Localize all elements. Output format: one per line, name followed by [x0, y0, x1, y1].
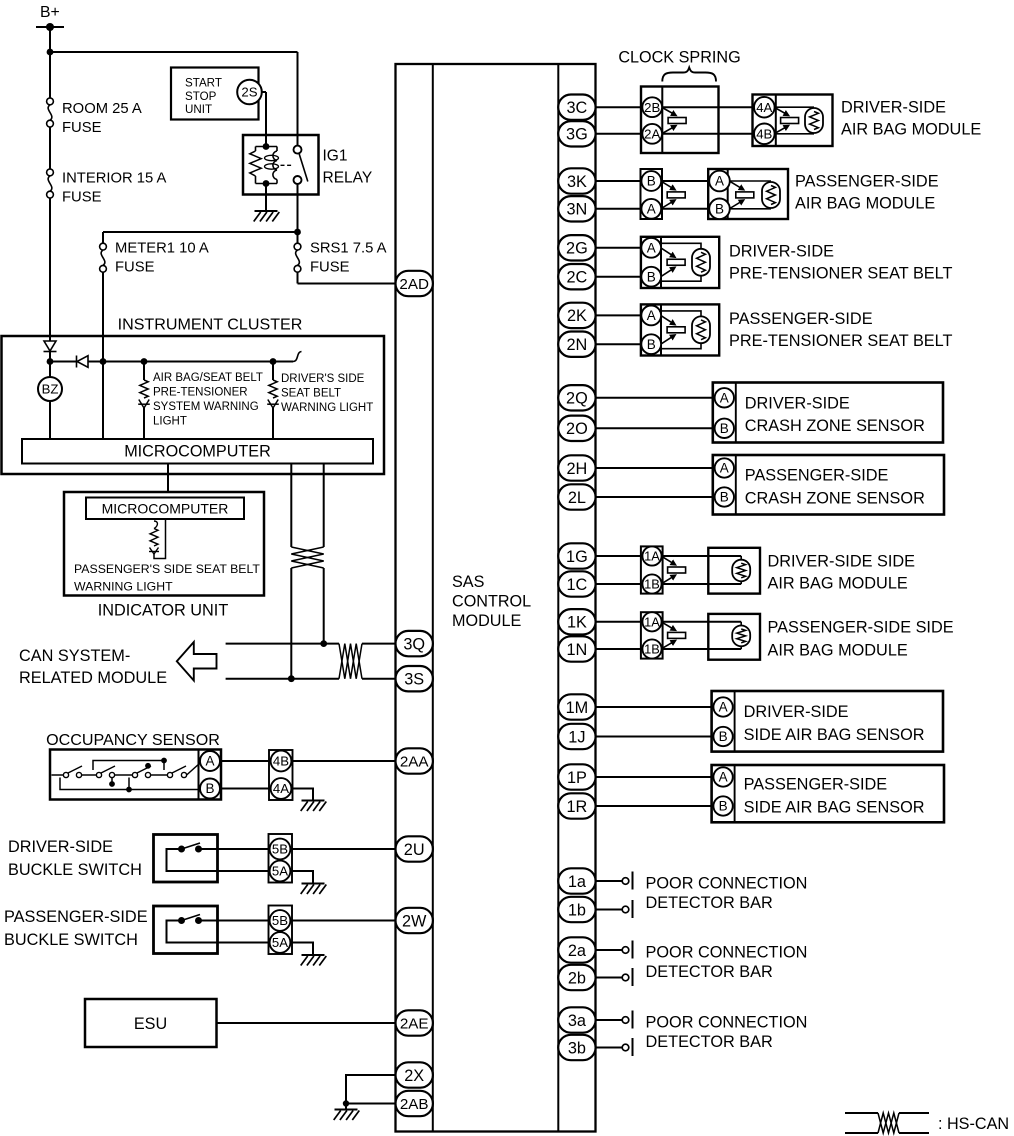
svg-text:B: B [720, 490, 729, 505]
svg-text:2C: 2C [566, 268, 587, 286]
svg-text:1A: 1A [644, 548, 660, 563]
svg-text:MICROCOMPUTER: MICROCOMPUTER [102, 501, 229, 517]
svg-text:DRIVER-SIDE: DRIVER-SIDE [729, 243, 834, 261]
svg-text:PASSENGER-SIDE: PASSENGER-SIDE [729, 310, 873, 328]
svg-text:FUSE: FUSE [310, 260, 350, 276]
svg-text:B: B [719, 729, 728, 744]
svg-text:4A: 4A [756, 100, 772, 115]
svg-text:INTERIOR 15 A: INTERIOR 15 A [62, 171, 167, 187]
svg-text:POOR CONNECTION: POOR CONNECTION [646, 1014, 808, 1032]
svg-text:2W: 2W [402, 912, 427, 930]
svg-text:2N: 2N [566, 336, 587, 354]
svg-text:AIR BAG MODULE: AIR BAG MODULE [768, 641, 908, 659]
svg-text:2B: 2B [644, 100, 660, 115]
svg-text:B: B [647, 174, 656, 189]
svg-text:3K: 3K [567, 173, 587, 191]
svg-text:2L: 2L [568, 489, 586, 507]
svg-text:3N: 3N [566, 201, 587, 219]
svg-text:B: B [719, 799, 728, 814]
svg-text:AIR BAG/SEAT BELT: AIR BAG/SEAT BELT [153, 372, 263, 384]
svg-text:PRE-TENSIONER SEAT BELT: PRE-TENSIONER SEAT BELT [729, 265, 953, 283]
svg-text:: HS-CAN: : HS-CAN [938, 1115, 1009, 1133]
svg-text:SYSTEM WARNING: SYSTEM WARNING [153, 401, 259, 413]
svg-text:5A: 5A [272, 864, 288, 879]
svg-text:5B: 5B [272, 913, 288, 928]
svg-text:2AE: 2AE [400, 1015, 429, 1032]
svg-text:SEAT BELT: SEAT BELT [281, 388, 341, 400]
svg-text:1B: 1B [644, 576, 660, 591]
svg-text:1A: 1A [644, 614, 660, 629]
svg-text:1G: 1G [566, 548, 588, 566]
svg-text:1N: 1N [566, 641, 587, 659]
svg-text:DRIVER-SIDE: DRIVER-SIDE [744, 703, 849, 721]
svg-text:B+: B+ [40, 4, 60, 21]
svg-text:OCCUPANCY SENSOR: OCCUPANCY SENSOR [46, 731, 220, 749]
svg-text:2b: 2b [568, 969, 586, 987]
svg-text:BZ: BZ [42, 382, 59, 397]
svg-text:1J: 1J [568, 728, 585, 746]
svg-text:CRASH ZONE SENSOR: CRASH ZONE SENSOR [745, 417, 925, 435]
svg-text:WARNING LIGHT: WARNING LIGHT [74, 580, 173, 594]
svg-text:DRIVER'S SIDE: DRIVER'S SIDE [281, 373, 365, 385]
svg-text:DRIVER-SIDE: DRIVER-SIDE [8, 838, 113, 856]
svg-text:CAN SYSTEM-: CAN SYSTEM- [19, 647, 130, 665]
svg-text:3G: 3G [566, 126, 588, 144]
svg-text:4B: 4B [756, 126, 772, 141]
svg-text:3Q: 3Q [403, 635, 425, 653]
svg-text:SAS: SAS [452, 573, 485, 591]
svg-text:A: A [720, 461, 729, 476]
svg-text:2A: 2A [644, 126, 660, 141]
svg-text:AIR BAG MODULE: AIR BAG MODULE [841, 121, 981, 139]
svg-text:RELAY: RELAY [323, 170, 373, 187]
svg-text:AIR BAG MODULE: AIR BAG MODULE [795, 195, 935, 213]
svg-text:DETECTOR BAR: DETECTOR BAR [646, 963, 773, 981]
svg-text:4B: 4B [273, 754, 289, 769]
svg-text:2G: 2G [566, 240, 588, 258]
svg-text:1a: 1a [568, 873, 587, 891]
svg-text:FUSE: FUSE [115, 260, 155, 276]
svg-text:1B: 1B [644, 641, 660, 656]
svg-text:A: A [647, 241, 656, 256]
svg-text:SRS1 7.5 A: SRS1 7.5 A [310, 241, 387, 257]
svg-text:B: B [647, 269, 656, 284]
svg-text:POOR CONNECTION: POOR CONNECTION [646, 875, 808, 893]
svg-text:CONTROL: CONTROL [452, 593, 531, 611]
svg-text:ESU: ESU [134, 1015, 167, 1033]
svg-text:METER1 10 A: METER1 10 A [115, 241, 209, 257]
svg-text:2X: 2X [404, 1067, 424, 1085]
svg-text:RELATED MODULE: RELATED MODULE [19, 669, 167, 687]
svg-text:2AD: 2AD [399, 276, 429, 293]
svg-text:3b: 3b [568, 1039, 586, 1057]
svg-text:INDICATOR UNIT: INDICATOR UNIT [98, 602, 229, 620]
svg-text:3C: 3C [566, 99, 587, 117]
svg-text:INSTRUMENT CLUSTER: INSTRUMENT CLUSTER [118, 316, 303, 334]
svg-text:1b: 1b [568, 901, 586, 919]
svg-text:SIDE AIR BAG SENSOR: SIDE AIR BAG SENSOR [744, 798, 925, 816]
svg-text:2S: 2S [241, 85, 257, 100]
svg-text:2AB: 2AB [400, 1096, 429, 1113]
svg-text:PRE-TENSIONER: PRE-TENSIONER [153, 387, 248, 399]
svg-text:PASSENGER-SIDE SIDE: PASSENGER-SIDE SIDE [768, 619, 954, 637]
svg-text:1P: 1P [567, 769, 587, 787]
svg-text:1M: 1M [566, 699, 589, 717]
svg-text:PASSENGER'S SIDE SEAT BELT: PASSENGER'S SIDE SEAT BELT [74, 562, 260, 576]
svg-text:1K: 1K [567, 614, 587, 632]
svg-text:LIGHT: LIGHT [153, 416, 187, 428]
svg-text:ROOM 25 A: ROOM 25 A [62, 101, 142, 117]
svg-text:BUCKLE SWITCH: BUCKLE SWITCH [8, 861, 142, 879]
svg-text:FUSE: FUSE [62, 190, 102, 206]
svg-text:A: A [205, 754, 214, 769]
svg-text:3a: 3a [568, 1012, 587, 1030]
svg-text:MODULE: MODULE [452, 612, 521, 630]
svg-text:DRIVER-SIDE SIDE: DRIVER-SIDE SIDE [768, 553, 916, 571]
svg-text:DETECTOR BAR: DETECTOR BAR [646, 894, 773, 912]
svg-text:IG1: IG1 [323, 148, 348, 165]
svg-text:1C: 1C [566, 576, 587, 594]
svg-text:3S: 3S [404, 670, 424, 688]
svg-text:BUCKLE SWITCH: BUCKLE SWITCH [4, 931, 138, 949]
svg-text:DRIVER-SIDE: DRIVER-SIDE [841, 99, 946, 117]
svg-text:START: START [185, 77, 222, 90]
svg-text:SIDE AIR BAG SENSOR: SIDE AIR BAG SENSOR [744, 726, 925, 744]
svg-text:POOR CONNECTION: POOR CONNECTION [646, 944, 808, 962]
svg-text:A: A [647, 308, 656, 323]
svg-text:2Q: 2Q [566, 390, 588, 408]
svg-text:B: B [647, 337, 656, 352]
svg-text:2a: 2a [568, 942, 587, 960]
svg-text:5B: 5B [272, 842, 288, 857]
svg-text:B: B [720, 421, 729, 436]
svg-text:A: A [719, 770, 728, 785]
svg-text:MICROCOMPUTER: MICROCOMPUTER [124, 443, 271, 461]
svg-text:2K: 2K [567, 307, 587, 325]
svg-text:CRASH ZONE SENSOR: CRASH ZONE SENSOR [745, 489, 925, 507]
svg-text:2AA: 2AA [400, 753, 430, 770]
svg-text:A: A [715, 174, 724, 189]
svg-text:2U: 2U [404, 841, 425, 859]
svg-text:FUSE: FUSE [62, 120, 102, 136]
svg-text:UNIT: UNIT [185, 103, 212, 116]
svg-text:B: B [205, 781, 214, 796]
svg-text:STOP: STOP [185, 90, 217, 103]
svg-text:DRIVER-SIDE: DRIVER-SIDE [745, 394, 850, 412]
svg-text:CLOCK SPRING: CLOCK SPRING [618, 49, 740, 67]
svg-text:PASSENGER-SIDE: PASSENGER-SIDE [795, 173, 939, 191]
svg-text:B: B [715, 202, 724, 217]
svg-text:4A: 4A [273, 781, 289, 796]
svg-text:WARNING LIGHT: WARNING LIGHT [281, 402, 373, 414]
svg-text:PASSENGER-SIDE: PASSENGER-SIDE [745, 467, 889, 485]
svg-text:A: A [720, 391, 729, 406]
svg-text:DETECTOR BAR: DETECTOR BAR [646, 1033, 773, 1051]
svg-text:5A: 5A [272, 935, 288, 950]
svg-text:PASSENGER-SIDE: PASSENGER-SIDE [4, 908, 148, 926]
svg-text:A: A [647, 202, 656, 217]
svg-text:A: A [719, 700, 728, 715]
svg-text:1R: 1R [566, 798, 587, 816]
svg-text:2O: 2O [566, 420, 588, 438]
svg-text:2H: 2H [566, 460, 587, 478]
svg-text:PASSENGER-SIDE: PASSENGER-SIDE [744, 775, 888, 793]
svg-text:PRE-TENSIONER SEAT BELT: PRE-TENSIONER SEAT BELT [729, 332, 953, 350]
svg-text:AIR BAG MODULE: AIR BAG MODULE [768, 574, 908, 592]
